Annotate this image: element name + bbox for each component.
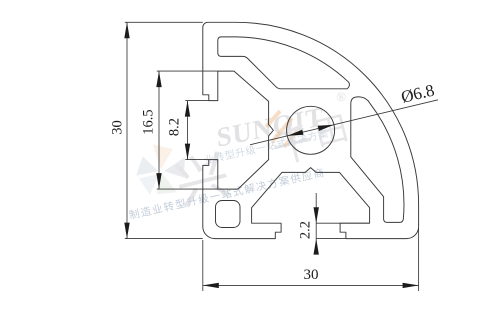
arrow 30-bottom right (403, 283, 419, 288)
right channel cavity (351, 97, 404, 222)
corner square cavity (216, 201, 241, 228)
arrow 16.5 bottom (156, 173, 161, 189)
arrow 30-left top (124, 22, 129, 38)
outer contour with left T-slot and bottom T-slot (203, 22, 419, 238)
dim 8.2 extension lines (185, 100, 209, 102)
dim 2.2 lines (315, 193, 317, 253)
dim 16.5 extension lines (157, 70, 218, 72)
dim 30 left line (126, 22, 128, 238)
leader line dia 6.8 (250, 100, 438, 145)
top internal cavity (218, 37, 350, 89)
svg-text:16.5: 16.5 (141, 109, 157, 134)
logo pinwheel (136, 144, 185, 195)
arrow 8.2 top (185, 101, 190, 117)
svg-text:8.2: 8.2 (167, 118, 183, 136)
svg-text:30: 30 (109, 120, 125, 135)
svg-text:30: 30 (304, 267, 319, 283)
arrow 8.2 bottom (185, 144, 190, 160)
arrow dia left (287, 130, 303, 136)
svg-text:Ø6.8: Ø6.8 (399, 81, 436, 107)
arrow 16.5 top (156, 71, 161, 87)
arrow 30-left bottom (124, 223, 129, 239)
svg-text:®: ® (335, 88, 348, 105)
arrow 2.2 lower (314, 239, 319, 255)
dim 16.5 line (158, 71, 160, 189)
arrow 2.2 upper (314, 207, 319, 223)
dim 30 bottom extension lines (202, 240, 204, 291)
svg-text:2.2: 2.2 (297, 221, 313, 239)
arrow dia right (318, 125, 334, 131)
dim 30 bottom line (203, 284, 419, 286)
dim 30 left extension lines (125, 21, 203, 23)
center bore circle (287, 106, 335, 154)
arrow 30-bottom left (203, 283, 219, 288)
dim 8.2 line (187, 101, 189, 160)
orange accent strokes (266, 111, 297, 147)
